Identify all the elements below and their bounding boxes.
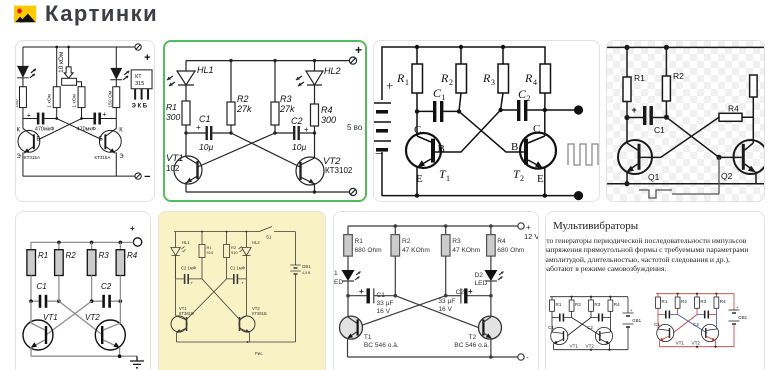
header images icon (0, 0, 44, 30)
battery GB1 (290, 232, 311, 342)
transistor VT2 (692, 323, 719, 347)
wire top rail (607, 46, 764, 48)
svg-text:+: + (468, 287, 473, 296)
resistor R2 (662, 47, 684, 116)
svg-text:47 KOhm: 47 KOhm (452, 247, 480, 254)
wire bottom rail (607, 183, 764, 185)
svg-text:GB1: GB1 (632, 318, 641, 323)
svg-text:GB1: GB1 (302, 264, 311, 269)
node T2 emitter (543, 193, 547, 197)
node R2 top (229, 59, 232, 62)
wire R2 bottom (58, 276, 60, 302)
resistor R1 (27, 250, 48, 276)
node R2 top (664, 45, 669, 50)
LED HL1 (171, 232, 190, 256)
svg-text:Q1: Q1 (648, 172, 660, 182)
resistor R3 (482, 47, 509, 110)
transistor package KT315 pinout (131, 70, 152, 110)
svg-text:R3: R3 (280, 94, 292, 104)
resistor R3 (87, 242, 109, 275)
node R1 top (415, 45, 419, 49)
node C1 right (229, 131, 232, 134)
svg-text:300: 300 (321, 115, 336, 125)
TILE7 (333, 211, 539, 370)
svg-text:33 µF: 33 µF (377, 300, 394, 307)
svg-text:R: R (482, 71, 491, 85)
svg-text:КТ315А: КТ315А (94, 155, 111, 160)
wire R1 to node (185, 125, 187, 133)
capacitor C2 (587, 314, 610, 331)
svg-text:R3: R3 (452, 238, 461, 245)
svg-text:R: R (396, 71, 405, 85)
node C1 right (664, 115, 669, 120)
node C1 right (57, 299, 61, 303)
node C2 right (489, 294, 493, 298)
svg-text:Рис.: Рис. (255, 351, 263, 356)
svg-text:R1: R1 (634, 73, 645, 83)
svg-text:HL1: HL1 (182, 240, 190, 245)
terminal bottom (518, 353, 529, 362)
node T1 emitter (415, 193, 419, 197)
svg-text:Э К Б: Э К Б (132, 104, 148, 110)
top rail red (656, 293, 734, 295)
svg-text:−: − (375, 146, 382, 161)
svg-text:R2: R2 (66, 251, 77, 260)
battery cells (373, 103, 391, 196)
svg-text:VT2: VT2 (586, 344, 595, 349)
svg-text:4,5 В: 4,5 В (302, 271, 311, 275)
svg-text:E: E (416, 173, 423, 185)
svg-text:R2: R2 (681, 299, 687, 304)
node R3 top (273, 59, 276, 62)
svg-text:E: E (537, 173, 544, 185)
svg-text:910: 910 (231, 250, 238, 255)
node R3 top (90, 241, 94, 245)
capacitor C1 (417, 86, 459, 122)
svg-text:R2: R2 (237, 94, 249, 104)
svg-text:10µ: 10µ (292, 142, 306, 152)
output terminal bottom (574, 191, 583, 200)
svg-text:+: + (630, 308, 633, 313)
cross couple wires (678, 315, 707, 334)
svg-text:102: 102 (166, 164, 180, 173)
svg-text:R1: R1 (38, 251, 48, 260)
svg-text:+: + (130, 224, 135, 233)
node C1 right (394, 294, 398, 298)
battery GB1 (729, 294, 748, 347)
wire cross couple to T2 base (459, 111, 524, 152)
schematic colored (654, 293, 748, 348)
node C2 right (119, 299, 123, 303)
wire bottom rail (382, 195, 579, 197)
node right branch (55, 46, 58, 49)
svg-text:1: 1 (405, 78, 409, 87)
svg-text:C1: C1 (199, 114, 211, 124)
resistor partial right edge (750, 75, 758, 97)
wires 1k bottoms (56, 108, 58, 119)
bottom rail red (660, 346, 735, 348)
resistor R2 (55, 242, 77, 275)
node T2 emitter bottom (489, 355, 493, 359)
resistor R1 (199, 232, 214, 279)
wire cross couple to T2 base (395, 296, 478, 328)
wire R4 bottom (119, 276, 121, 302)
svg-text:C2: C2 (291, 116, 303, 126)
svg-text:Б: Б (36, 136, 40, 142)
svg-text:680 Ohm: 680 Ohm (355, 247, 383, 254)
svg-text:R1: R1 (662, 299, 668, 304)
wire top rail with switch S1 (174, 227, 296, 240)
svg-text:VT2: VT2 (692, 341, 701, 346)
capacitor C2 (92, 276, 121, 308)
resistor R1 680 Ohm (344, 226, 382, 256)
transistor VT2 KT3102 (296, 133, 353, 192)
resistor R1 (550, 297, 562, 326)
svg-text:+: + (386, 78, 393, 93)
output terminal top (574, 105, 583, 114)
svg-text:1 кОм: 1 кОм (72, 93, 78, 107)
node R1 top (624, 45, 629, 50)
resistor R2 (440, 47, 467, 111)
svg-text:S1: S1 (266, 235, 272, 240)
wire cross couple to T1 base (359, 296, 446, 327)
node C2 right (313, 131, 316, 134)
resistor R4 300 (311, 104, 337, 133)
svg-text:C1 1мФ: C1 1мФ (230, 266, 245, 271)
svg-text:HL1: HL1 (197, 65, 214, 75)
capacitor C1 (548, 314, 572, 331)
svg-text:680 Ohm: 680 Ohm (497, 247, 525, 254)
transistor T1 BC546 (340, 296, 399, 357)
node HL2 top (313, 59, 316, 62)
node emitter VT2 bottom (313, 190, 316, 193)
svg-text:B: B (511, 141, 518, 153)
svg-text:R2: R2 (402, 238, 411, 245)
capacitor C1 right (227, 256, 247, 286)
svg-text:R4: R4 (720, 299, 726, 304)
node R3 bottom (498, 108, 502, 112)
capacitor C2 33uF (438, 287, 491, 313)
wire bottom rail (186, 191, 350, 193)
wire cross couple to VT1 base (198, 133, 276, 167)
svg-text:+: + (632, 105, 637, 115)
resistor R1 300 (182, 101, 190, 125)
terminal plus top right (135, 44, 141, 50)
wire top rail (382, 47, 545, 100)
svg-text:+: + (242, 281, 245, 286)
transistor T1 (406, 111, 450, 195)
wire top rail (23, 46, 135, 48)
wire top rail (348, 225, 518, 227)
wire bottom rail (23, 175, 135, 177)
resistor R2 (675, 294, 687, 315)
svg-text:КТ315А: КТ315А (24, 155, 41, 160)
svg-text:300: 300 (166, 112, 180, 122)
node R4 top (489, 224, 493, 228)
svg-text:C2 1мФ: C2 1мФ (181, 266, 196, 271)
resistor R3 27k (271, 61, 295, 133)
svg-text:1 кОм: 1 кОм (47, 93, 53, 107)
node (80, 117, 83, 120)
capacitor C2 (501, 87, 579, 121)
svg-text:Э: Э (16, 154, 21, 160)
resistor 1k left (53, 87, 60, 108)
node R4 top (119, 241, 123, 245)
svg-text:GB1: GB1 (738, 315, 747, 320)
node R4 bottom (543, 108, 547, 112)
wire cross couple Q1 base to R4 (640, 117, 719, 157)
svg-text:+: + (102, 112, 106, 119)
capacitor 470mkF right (77, 112, 117, 133)
svg-text:КТ3102: КТ3102 (325, 166, 353, 175)
schematic mono: top rail (550, 296, 628, 298)
node R2 top (394, 224, 398, 228)
node R3 top (501, 45, 505, 49)
svg-text:27k: 27k (279, 104, 295, 114)
svg-text:1: 1 (446, 174, 450, 183)
capacitor C2 (693, 311, 716, 328)
capacitor C1 (654, 311, 678, 328)
node wiper tap (67, 46, 70, 49)
svg-text:К: К (119, 127, 123, 133)
svg-text:+: + (355, 43, 362, 57)
svg-text:3: 3 (491, 78, 495, 87)
resistor R3 47 KOhm (441, 226, 480, 296)
resistor R3 (695, 294, 707, 315)
resistor left collector (19, 87, 26, 108)
svg-text:Б: Б (99, 136, 103, 142)
potentiometer 10k (58, 47, 81, 87)
square wave symbol (568, 144, 598, 165)
node R2 top (57, 241, 61, 245)
wire cross couple B (187, 279, 227, 319)
transistor T2 BC546 (454, 296, 501, 357)
resistor R2 47 KOhm (391, 226, 430, 296)
wire top rail (186, 60, 350, 62)
svg-text:27k: 27k (236, 104, 252, 114)
LED D1 (334, 256, 361, 296)
wire cross couple to VT1 base (46, 301, 92, 335)
resistor R1 (656, 294, 668, 323)
svg-text:R1: R1 (166, 102, 177, 112)
svg-text:-: - (526, 353, 529, 362)
TILE6 (158, 211, 326, 370)
wire cross couple to VT2 base (59, 301, 103, 335)
svg-text:C: C (414, 124, 421, 136)
svg-text:+: + (736, 305, 739, 310)
svg-text:VT2: VT2 (85, 313, 100, 322)
resistor R2 (569, 297, 581, 318)
resistor 1k right (78, 87, 85, 108)
svg-text:C1: C1 (654, 125, 665, 135)
svg-text:1: 1 (334, 270, 338, 277)
svg-text:T2: T2 (469, 334, 477, 341)
wire bottom rail (31, 355, 137, 357)
ground (130, 356, 144, 368)
svg-text:+: + (191, 281, 194, 286)
svg-text:910: 910 (207, 250, 214, 255)
wire cross couple B (39, 119, 82, 140)
svg-text:VT1: VT1 (166, 153, 183, 164)
wire to Q2 base (719, 156, 742, 158)
LED HL2 (239, 232, 261, 256)
svg-text:R: R (524, 71, 533, 85)
svg-text:D2: D2 (475, 272, 484, 279)
node R3 top (444, 224, 448, 228)
node dots (571, 296, 573, 298)
TILE3 (373, 40, 600, 202)
node emitter VT2 (118, 354, 122, 358)
svg-text:VT1: VT1 (676, 341, 685, 346)
capacitor C2 10u (275, 116, 316, 152)
transistor VT1 KT3102 (166, 133, 202, 192)
TILE5 (15, 211, 151, 370)
TILE8 (545, 211, 765, 370)
svg-text:47 KOhm: 47 KOhm (402, 247, 430, 254)
header title (45, 1, 158, 27)
resistor R2 27k (227, 61, 252, 133)
svg-text:К: К (16, 127, 20, 133)
wire cross couple A (57, 119, 102, 140)
svg-text:R3: R3 (594, 302, 600, 307)
svg-text:R1: R1 (355, 238, 364, 245)
resistor R4 680 Ohm (487, 226, 525, 270)
transistor VT2 (239, 279, 267, 342)
terminal circle (133, 238, 141, 246)
wire cross couple to T1 base (435, 110, 501, 152)
svg-text:BC 546 o.ä.: BC 546 o.ä. (364, 342, 399, 349)
svg-text:10µ: 10µ (199, 142, 213, 152)
wire (22, 108, 24, 119)
svg-text:R3: R3 (700, 299, 706, 304)
resistor R4 (116, 242, 138, 275)
wire cross couple A (202, 279, 239, 319)
node R2 top (459, 45, 463, 49)
terminal plus 12V (518, 223, 540, 241)
TILE1 (15, 40, 155, 202)
svg-text:C1: C1 (377, 292, 386, 299)
LED HL1 (167, 61, 214, 101)
svg-text:R4: R4 (321, 105, 333, 115)
node Q2 base junction (716, 155, 721, 160)
node R1 bottom (415, 109, 419, 113)
transistor VT1 (657, 323, 685, 347)
transistor VT1 (551, 326, 579, 350)
node Q1 emitter (624, 181, 629, 186)
svg-text:16 V: 16 V (438, 306, 452, 313)
node C1 left (29, 299, 33, 303)
resistor R4 (714, 294, 726, 323)
terminal plus (349, 57, 356, 64)
transistor VT1 (171, 256, 194, 342)
transistor VT2 (586, 326, 613, 350)
svg-text:R2: R2 (575, 302, 581, 307)
LED HL2 (110, 47, 129, 87)
wire rail to 1k left (56, 47, 58, 87)
svg-text:+: + (359, 287, 364, 296)
capacitor C1 (627, 105, 666, 135)
resistor R3 (589, 297, 601, 318)
svg-text:4: 4 (533, 78, 537, 87)
svg-text:C: C (533, 123, 540, 135)
resistor R1 (623, 47, 645, 117)
svg-text:HL2: HL2 (324, 66, 341, 76)
resistor R4 (608, 297, 620, 326)
node C1 left (346, 294, 350, 298)
capacitor C1 10u (186, 114, 231, 152)
wire bottom rail (177, 341, 296, 343)
svg-text:Q2: Q2 (721, 171, 733, 181)
LED HL1 (17, 47, 36, 87)
node C2 left (273, 131, 276, 134)
transistor Q1 (618, 118, 660, 184)
transistor VT left KT315A (16, 119, 40, 177)
svg-text:150 Ом: 150 Ом (107, 90, 113, 107)
svg-text:B: B (438, 143, 445, 155)
capacitor 470mkF left (23, 113, 57, 133)
svg-text:−: − (144, 171, 150, 183)
LED HL2 (296, 61, 341, 104)
svg-text:470мкФ: 470мкФ (35, 126, 54, 132)
svg-text:C2: C2 (101, 282, 112, 291)
transistor T2 (511, 110, 556, 196)
transistor VT right KT315A (94, 119, 124, 177)
svg-text:16 V: 16 V (377, 308, 391, 315)
svg-text:VT1: VT1 (43, 313, 58, 322)
svg-text:HL2: HL2 (252, 240, 260, 245)
svg-text:R4: R4 (614, 302, 620, 307)
svg-text:10 кОм: 10 кОм (58, 52, 65, 73)
capacitor C1 33uF (348, 287, 395, 315)
svg-text:R3: R3 (99, 251, 110, 260)
node (55, 117, 58, 120)
svg-text:R: R (440, 71, 449, 85)
svg-text:КТ: КТ (135, 74, 142, 80)
cross couple wires (572, 318, 601, 337)
svg-text:T1: T1 (364, 334, 372, 341)
terminal minus bottom right (135, 173, 141, 179)
svg-text:315: 315 (135, 81, 144, 87)
svg-text:R1: R1 (556, 302, 562, 307)
wire bottom rail (348, 356, 518, 358)
battery GB1 (623, 297, 642, 350)
resistor R4 horizontal (719, 97, 753, 121)
TILE4 (606, 40, 765, 202)
resistor 150 Om (113, 87, 120, 108)
transistor Q2 (721, 117, 768, 183)
bottom rail (554, 349, 629, 351)
resistor R2 (224, 232, 239, 279)
node C1 left (624, 115, 629, 120)
wire cross couple to VT2 base (231, 133, 300, 167)
node C2 left (90, 299, 94, 303)
node R2 bottom (457, 109, 461, 113)
svg-text:R4: R4 (497, 238, 506, 245)
svg-text:C2: C2 (456, 289, 465, 296)
svg-text:+: + (144, 52, 150, 64)
transistor VT2 (85, 301, 125, 356)
svg-text:BC 546 o.ä.: BC 546 o.ä. (454, 342, 489, 349)
svg-text:КТ361Б: КТ361Б (252, 311, 267, 316)
svg-text:ED: ED (334, 279, 343, 286)
node C1 left (184, 131, 187, 134)
svg-text:+: + (196, 123, 201, 132)
svg-text:5 во: 5 во (347, 123, 363, 132)
resistor R1 (396, 47, 423, 111)
resistor R4 (524, 64, 551, 110)
svg-text:КТ361Б: КТ361Б (179, 311, 194, 316)
svg-text:C1: C1 (37, 282, 47, 291)
